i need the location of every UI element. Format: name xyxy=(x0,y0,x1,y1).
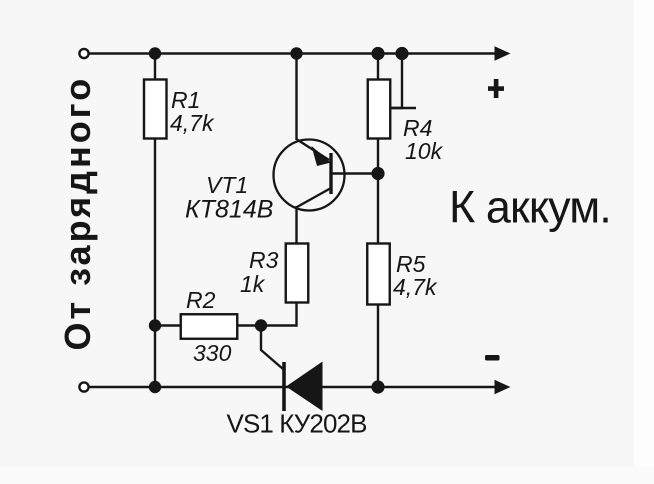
resistor R1 xyxy=(144,80,167,139)
resistor R3 xyxy=(286,244,309,303)
svg-text:R2: R2 xyxy=(186,287,216,313)
plus sign xyxy=(488,79,504,98)
wire top rail xyxy=(89,52,498,54)
resistor R2 xyxy=(181,314,238,339)
wire R5 bottom xyxy=(377,305,379,387)
wire R4 top xyxy=(377,54,379,81)
wire R2 right xyxy=(238,324,261,326)
node bottom R5 xyxy=(371,380,384,393)
svg-text:1k: 1k xyxy=(240,271,266,297)
transistor VT1 xyxy=(274,140,345,211)
node gate junction xyxy=(255,319,267,331)
wire VT1 emitter top xyxy=(295,54,297,141)
svg-text:10k: 10k xyxy=(405,138,444,164)
wire R4 bottom xyxy=(377,139,379,244)
wire VS1 gate xyxy=(261,326,283,370)
svg-text:К аккум.: К аккум. xyxy=(449,182,611,233)
svg-text:От зарядного: От зарядного xyxy=(57,76,98,351)
minus sign xyxy=(485,355,500,361)
node R4 wiper xyxy=(395,47,408,60)
terminal input + xyxy=(79,49,88,58)
wire VT1 base xyxy=(331,172,378,174)
svg-text:330: 330 xyxy=(193,340,232,366)
resistor R5 xyxy=(367,244,390,305)
arrow to battery - xyxy=(495,380,511,394)
node bottom R1 line xyxy=(149,381,161,393)
arrow to battery + xyxy=(495,46,511,60)
svg-text:VS1 КУ202В: VS1 КУ202В xyxy=(227,409,367,439)
node top R1 xyxy=(149,47,161,59)
node top R4 xyxy=(371,47,384,60)
node R2 left xyxy=(149,319,161,331)
thyristor VS1 xyxy=(284,362,323,412)
resistor R4 xyxy=(368,80,391,139)
wire R2 left from R1 line xyxy=(155,324,180,326)
wire R1 bottom to bottom rail xyxy=(154,139,156,387)
wire R3 bottom xyxy=(261,303,297,326)
node top VT1 xyxy=(290,47,302,59)
svg-text:КТ814В: КТ814В xyxy=(185,196,273,224)
node base junction xyxy=(371,167,384,180)
wire bottom rail xyxy=(89,386,498,388)
wire VT1 collector to R3 xyxy=(295,206,297,244)
svg-text:4,7k: 4,7k xyxy=(393,274,438,300)
svg-text:4,7k: 4,7k xyxy=(170,110,215,136)
svg-text:VT1: VT1 xyxy=(206,172,248,198)
R4 wiper tap xyxy=(392,54,403,109)
wire R1 top xyxy=(154,54,156,81)
terminal input - xyxy=(79,382,88,391)
svg-text:R3: R3 xyxy=(249,247,279,273)
